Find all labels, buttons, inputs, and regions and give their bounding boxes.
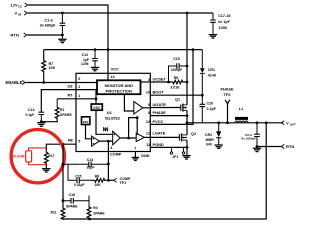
ground (C6-9) (253, 148, 261, 151)
ground (PGND) (182, 156, 190, 159)
svg-text:LGATE: LGATE (153, 131, 166, 136)
svg-text:V: V (286, 120, 289, 125)
internal wire error amp out / COMP (99, 141, 112, 151)
svg-text:OSC: OSC (93, 106, 101, 110)
wire ENABLE (26, 82, 98, 84)
wire SS (41, 90, 96, 113)
internal wire REF to error amp (86, 125, 92, 139)
transistor Q2 (179, 133, 187, 155)
svg-text:C1-3: C1-3 (44, 18, 52, 22)
svg-text:2: 2 (78, 85, 80, 89)
svg-text:SPARE: SPARE (60, 113, 72, 117)
resistor R6 (169, 80, 188, 84)
svg-text:Q1: Q1 (175, 98, 180, 102)
capacitor C1-3 (60, 13, 66, 39)
svg-text:2x 1µF: 2x 1µF (218, 20, 231, 24)
svg-text:RTN: RTN (11, 33, 19, 38)
svg-text:JP1: JP1 (172, 155, 178, 159)
svg-text:C14: C14 (87, 158, 94, 162)
resistor R7 (42, 50, 46, 83)
svg-text:33pF: 33pF (87, 166, 95, 170)
ground (pin7) (132, 157, 140, 160)
capacitor C19 (169, 63, 188, 82)
annotation red circle (11, 130, 64, 183)
wire PGND (150, 146, 187, 148)
internal wire ugate out pin9 (143, 107, 151, 109)
resistor R17 (44, 150, 48, 169)
svg-text:OUT: OUT (290, 122, 296, 126)
internal wire lgate out pin12 (144, 136, 150, 138)
svg-text:340: 340 (206, 143, 212, 147)
svg-text:1µF: 1µF (83, 58, 89, 62)
svg-text:11: 11 (146, 143, 150, 147)
svg-text:C13: C13 (28, 108, 34, 112)
svg-text:PGND: PGND (153, 142, 164, 147)
wire PHASE (150, 115, 187, 117)
svg-text:10K: 10K (94, 183, 101, 187)
ref block (82, 117, 90, 125)
ground (C17-18) (209, 35, 217, 38)
svg-text:13: 13 (146, 120, 150, 124)
svg-text:TP1: TP1 (120, 181, 127, 185)
svg-text:7: 7 (134, 147, 136, 151)
svg-text:4148: 4148 (208, 73, 216, 77)
transistor Q1 (181, 104, 187, 116)
capacitor C15 (68, 164, 91, 183)
internal wire to gate logic (136, 116, 139, 119)
capacitor C20 (200, 95, 206, 123)
svg-text:1206: 1206 (219, 26, 227, 30)
resistor R1 (41, 99, 59, 122)
svg-text:C19: C19 (173, 57, 180, 61)
svg-text:C15: C15 (75, 175, 81, 179)
ramp symbol M (104, 127, 108, 131)
svg-text:R7: R7 (49, 62, 54, 66)
wire GND pin7 (134, 152, 136, 158)
svg-text:VCC: VCC (111, 67, 119, 72)
svg-text:RTN: RTN (286, 144, 294, 149)
svg-text:4x 1000µF: 4x 1000µF (241, 137, 256, 141)
svg-text:C17-18: C17-18 (218, 14, 230, 18)
svg-text:0.1µF: 0.1µF (26, 113, 35, 117)
svg-text:MBR: MBR (206, 138, 215, 142)
svg-text:TP2: TP2 (224, 93, 231, 97)
wire VOUT feedback loop (265, 121, 268, 124)
svg-text:R11: R11 (50, 210, 56, 214)
wire UGATE (150, 107, 181, 109)
wire FB feedback vertical (62, 144, 64, 208)
resistor R8 (91, 179, 108, 183)
wire 12V rail horizontal (44, 49, 203, 51)
svg-text:FB: FB (68, 139, 73, 143)
svg-text:L1: L1 (239, 107, 243, 111)
svg-text:IN: IN (18, 13, 21, 17)
svg-text:R4: R4 (93, 206, 98, 210)
resistor R4 (87, 196, 91, 220)
ground (C12) (91, 67, 99, 70)
svg-text:PHASE: PHASE (153, 110, 167, 115)
svg-text:CR1: CR1 (208, 68, 215, 72)
op-amp U1 ISL6522 IC body (76, 73, 150, 151)
svg-text:C12: C12 (82, 53, 89, 57)
svg-text:CR2: CR2 (205, 133, 212, 137)
wire FB (46, 144, 76, 149)
svg-text:GND: GND (141, 154, 150, 158)
wire 12VCC rail top (28, 5, 108, 80)
node VIN input (24, 11, 27, 15)
osc block (91, 104, 102, 110)
svg-text:RT: RT (67, 93, 73, 97)
annotation red resistor 10KOHM (26, 148, 47, 165)
svg-text:Q2: Q2 (191, 132, 196, 136)
svg-text:1000pF: 1000pF (171, 68, 182, 72)
error amp triangle (92, 136, 100, 146)
internal wire pwm out to lgate driver (120, 137, 136, 139)
diode CR2 (216, 123, 221, 145)
internal wire monitor down (124, 94, 133, 111)
svg-text:V: V (15, 11, 18, 16)
svg-text:3x 680µF: 3x 680µF (40, 24, 56, 28)
capacitor C17-18 (210, 13, 216, 34)
svg-text:U1: U1 (107, 110, 113, 115)
svg-text:SPARE: SPARE (66, 204, 78, 208)
svg-text:OCSET: OCSET (153, 77, 167, 82)
resistor R11 (61, 208, 65, 219)
svg-text:SPARE: SPARE (93, 211, 105, 215)
node 12VCC input (25, 3, 28, 7)
svg-text:SS: SS (67, 84, 73, 88)
svg-text:0.01µF: 0.01µF (74, 183, 84, 187)
svg-text:UGATE: UGATE (153, 102, 167, 107)
svg-text:ISL6522: ISL6522 (105, 116, 121, 121)
svg-text:MONITOR AND: MONITOR AND (105, 83, 134, 88)
lgate driver triangle (136, 133, 144, 141)
svg-text:3: 3 (148, 78, 150, 82)
wire RTN output (257, 146, 282, 148)
internal wire OSC to pwm (96, 110, 113, 134)
diode CR1 (200, 50, 205, 96)
svg-text:BOOT: BOOT (153, 90, 165, 95)
ugate driver triangle (134, 102, 143, 114)
wire VIN rail (28, 12, 214, 14)
wire RT (57, 98, 96, 100)
svg-text:10K: 10K (49, 66, 56, 70)
monitor and protection block (97, 80, 141, 94)
svg-text:0.1µF: 0.1µF (207, 107, 217, 111)
inductor L1 (235, 117, 248, 120)
svg-text:12: 12 (146, 132, 150, 136)
svg-text:9: 9 (148, 103, 150, 107)
svg-text:REF: REF (83, 120, 89, 124)
ground (C1-3) (58, 39, 66, 42)
svg-text:PHASE: PHASE (220, 88, 234, 92)
jumper JP1 (170, 147, 184, 154)
svg-text:10: 10 (146, 91, 150, 95)
svg-text:8: 8 (148, 111, 150, 115)
capacitor C14 (63, 162, 108, 168)
ground (CR2) (215, 145, 223, 148)
internal wire MONITOR to OCSET pin3 (141, 81, 151, 83)
wire OCSET (150, 81, 168, 83)
svg-text:1: 1 (78, 94, 80, 98)
svg-text:5: 5 (78, 140, 80, 144)
test point TP2 (225, 100, 230, 123)
capacitor C16 (63, 198, 90, 204)
svg-text:1206: 1206 (81, 62, 89, 66)
wire RTN input (27, 34, 62, 36)
svg-text:R17: R17 (48, 154, 54, 158)
svg-text:R6: R6 (174, 76, 179, 80)
wire VOUT (282, 121, 285, 125)
svg-text:3.01K: 3.01K (170, 86, 180, 90)
ground (C13/R1) (37, 123, 45, 126)
svg-text:R8: R8 (95, 175, 100, 179)
wire VIN to Q1 drain (186, 13, 188, 105)
svg-text:C20: C20 (207, 102, 214, 106)
ground (R17) (42, 169, 50, 172)
svg-text:ENABLE: ENABLE (6, 80, 23, 85)
pwm comparator triangle (114, 133, 116, 135)
wire phase power rail (187, 116, 283, 135)
svg-text:6: 6 (78, 77, 80, 81)
svg-text:PROTECTION: PROTECTION (106, 89, 132, 94)
wire BOOT (150, 94, 202, 96)
capacitor C12 (92, 50, 98, 67)
capacitor C13 (39, 112, 45, 122)
wire COMP pin4 (107, 152, 109, 181)
svg-text:COMP: COMP (110, 153, 122, 157)
svg-text:PVCC: PVCC (153, 119, 164, 124)
wire PVCC (150, 50, 193, 125)
wire LGATE (150, 136, 179, 138)
svg-text:C16: C16 (69, 193, 75, 197)
capacitor C6-9 (254, 123, 260, 147)
svg-text:R1: R1 (60, 108, 65, 112)
test point TP1 COMP (108, 179, 113, 181)
